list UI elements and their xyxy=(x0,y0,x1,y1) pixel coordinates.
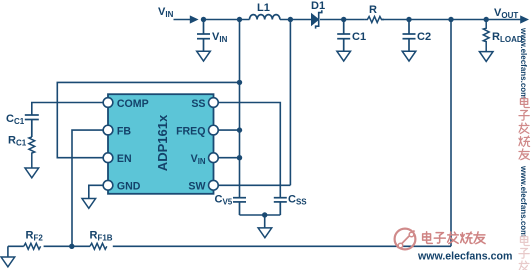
svg-text:FB: FB xyxy=(117,125,131,137)
ground C1 xyxy=(337,51,351,61)
capacitor CV5 xyxy=(233,198,246,215)
pin SW xyxy=(209,180,219,190)
svg-text:L1: L1 xyxy=(257,2,270,14)
capacitor VIN bypass xyxy=(197,20,210,52)
node dot 239 xyxy=(237,17,242,22)
wire FB down to feedback node xyxy=(72,130,103,246)
wire resistor R right xyxy=(381,19,520,21)
svg-text:www.elecfans.com: www.elecfans.com xyxy=(417,251,512,263)
watermark right edge chinese 2 xyxy=(519,235,529,270)
node dot 451 xyxy=(448,17,453,22)
resistor RLOAD xyxy=(483,20,489,52)
VIN source arrowhead xyxy=(190,15,199,23)
svg-text:VIN: VIN xyxy=(158,6,174,19)
diode D1 schottky xyxy=(312,10,322,28)
capacitor C2 xyxy=(403,20,416,52)
node dot 204 xyxy=(201,17,206,22)
svg-text:C2: C2 xyxy=(417,31,431,43)
svg-text:RF2: RF2 xyxy=(26,230,44,243)
svg-text:RLOAD: RLOAD xyxy=(492,31,523,44)
node dot 290 xyxy=(288,17,293,22)
ground GND pin xyxy=(82,199,96,209)
svg-text:www.elecfans.com: www.elecfans.com xyxy=(519,27,528,99)
bottom feedback rail xyxy=(8,246,451,257)
wire SS to CSS xyxy=(218,103,280,198)
svg-text:RC1: RC1 xyxy=(8,135,27,148)
wire FREQ stub xyxy=(218,129,239,131)
ground C2 xyxy=(402,51,416,61)
svg-text:RF1B: RF1B xyxy=(90,230,113,243)
pin SS xyxy=(209,98,219,108)
svg-text:CSS: CSS xyxy=(288,194,307,207)
wire vertical SW net x290 xyxy=(289,20,291,186)
watermark chinese text xyxy=(423,232,485,244)
node dot 344 xyxy=(341,17,346,22)
wire EN to VIN net xyxy=(57,82,239,157)
node dot 409 xyxy=(406,17,411,22)
wire GND pin to ground xyxy=(89,185,104,198)
wire node204 to node239 xyxy=(204,19,250,21)
pin VIN xyxy=(209,153,219,163)
svg-text:ADP161x: ADP161x xyxy=(155,114,170,171)
pin FB xyxy=(103,125,113,135)
watermark right edge url 2 xyxy=(519,165,528,237)
wire VIN pin stub xyxy=(218,157,239,159)
resistor R xyxy=(365,17,384,23)
wire cap commons xyxy=(240,215,281,228)
capacitor C1 xyxy=(337,20,350,52)
ground feedback left xyxy=(1,257,15,267)
pin COMP xyxy=(103,98,113,108)
watermark right edge chinese xyxy=(519,97,530,160)
svg-text:R: R xyxy=(369,4,377,16)
capacitor CSS xyxy=(274,198,287,215)
wire SW to switch node xyxy=(218,184,290,186)
watermark right edge url xyxy=(519,27,528,99)
svg-text:CC1: CC1 xyxy=(6,113,25,126)
pin GND xyxy=(103,180,113,190)
junction dot EN/VIN net xyxy=(237,80,242,85)
ground caps xyxy=(258,228,272,238)
wire COMP to CC1 xyxy=(32,103,104,116)
junction dot feedback xyxy=(69,244,74,249)
svg-text:GND: GND xyxy=(117,181,141,193)
junction dot VIN pin xyxy=(237,155,242,160)
svg-text:www.elecfans.com: www.elecfans.com xyxy=(519,165,528,237)
node dot 486 xyxy=(484,17,489,22)
pin FREQ xyxy=(209,125,219,135)
wire diode to node344 xyxy=(320,19,365,21)
resistor RF1B xyxy=(90,243,107,249)
svg-text:EN: EN xyxy=(117,153,132,165)
watermark logo xyxy=(395,229,416,250)
wire VIN input xyxy=(174,19,194,21)
svg-text:SW: SW xyxy=(188,181,205,193)
resistor RC1 xyxy=(29,137,35,168)
junction dot cap common xyxy=(262,212,267,217)
svg-text:D1: D1 xyxy=(311,0,325,12)
resistor RF2 xyxy=(24,243,41,249)
svg-text:VIN: VIN xyxy=(212,31,228,44)
svg-text:CV5: CV5 xyxy=(215,194,233,207)
ground RC1 xyxy=(25,168,39,178)
svg-text:VOUT: VOUT xyxy=(494,7,518,20)
svg-text:FREQ: FREQ xyxy=(176,125,205,137)
inductor L1 xyxy=(250,15,280,20)
ground RLOAD xyxy=(479,52,493,62)
svg-text:C1: C1 xyxy=(352,31,366,43)
ground VIN cap xyxy=(197,51,211,61)
top rail wire xyxy=(174,19,521,21)
wire vertical VIN net x239 xyxy=(239,20,241,198)
junction dot FREQ xyxy=(237,127,242,132)
IC U1 ADP161x body xyxy=(108,94,214,194)
svg-text:COMP: COMP xyxy=(117,98,149,110)
svg-text:SS: SS xyxy=(191,98,205,110)
capacitor CC1 xyxy=(25,115,39,137)
wire vertical feedback x451 xyxy=(450,20,452,247)
pin EN xyxy=(103,153,113,163)
wire coil to node290 xyxy=(280,19,312,21)
VOUT arrowhead xyxy=(520,15,529,23)
